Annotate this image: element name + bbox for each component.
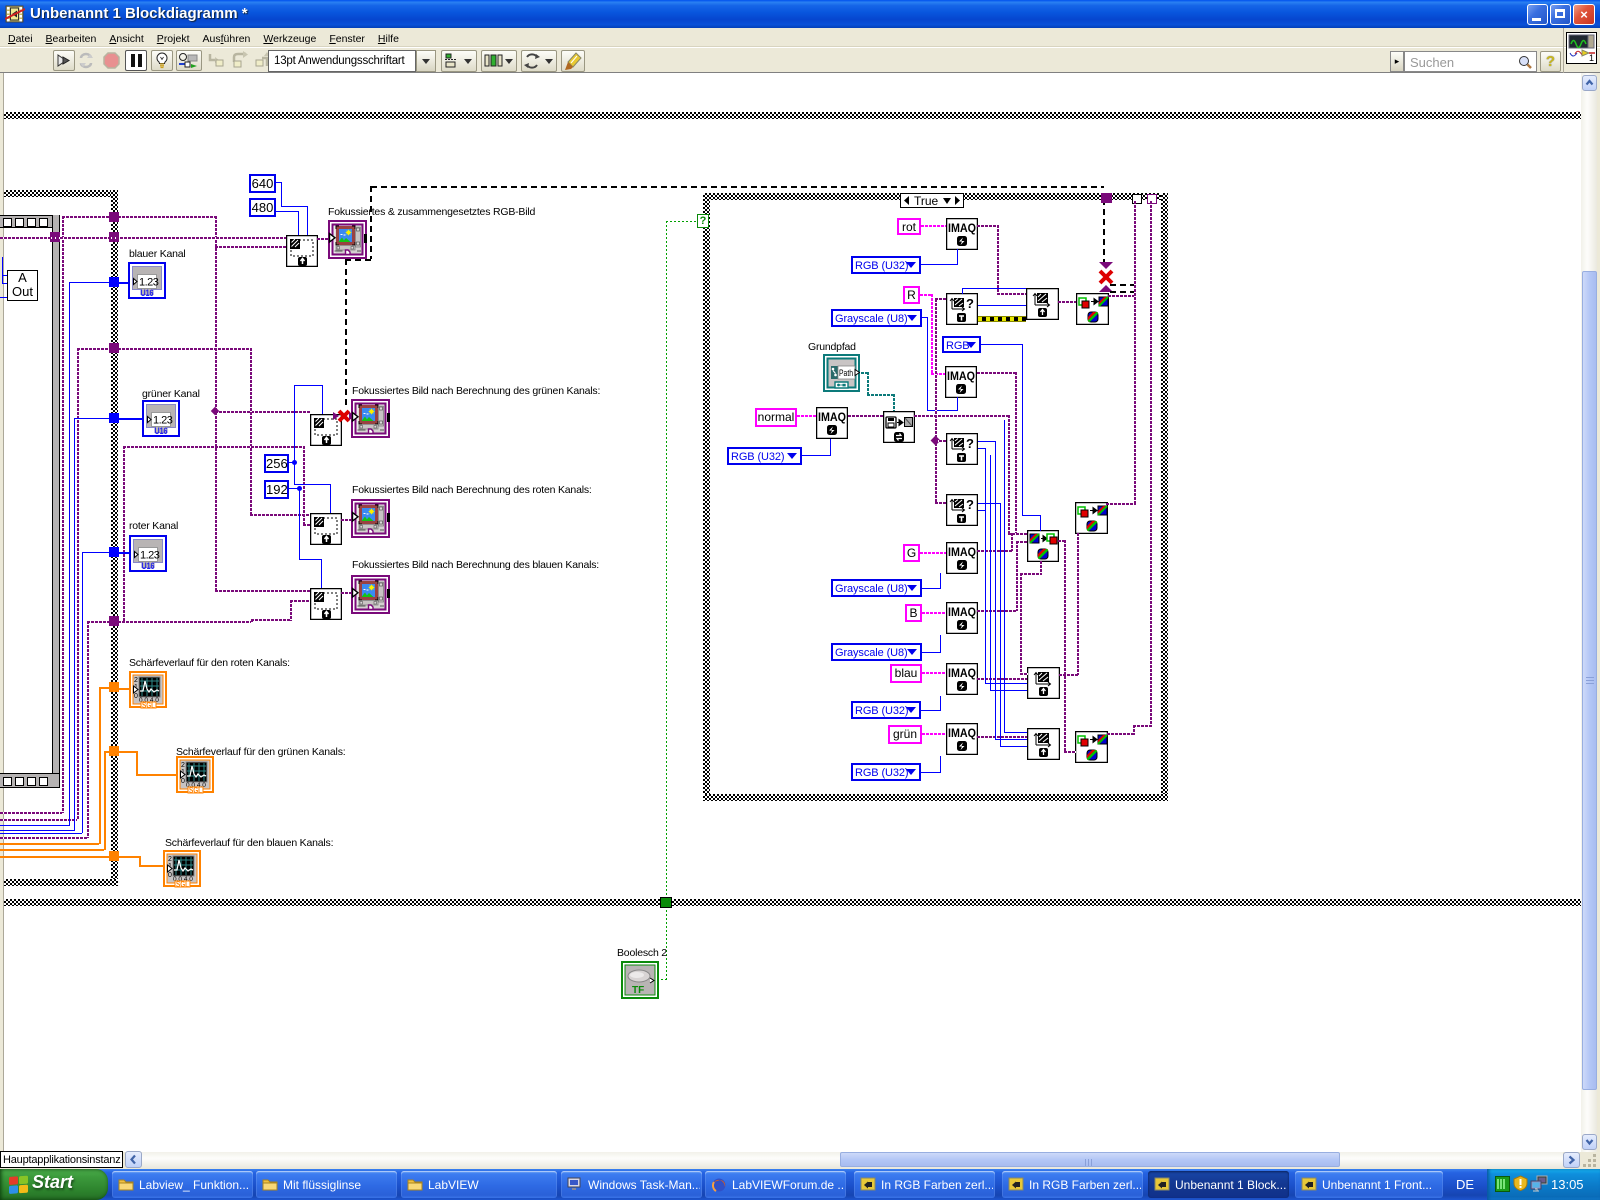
horizontal scrollbar thumb (840, 1152, 1340, 1167)
replace plane node 7 (1026, 288, 1059, 320)
wire purple IMAQ7 out to node32 (977, 736, 1027, 738)
image display icon 2 (351, 399, 390, 438)
resize grip (1583, 1154, 1597, 1167)
font selector (268, 50, 416, 72)
wire blue bundle verticals (985, 448, 986, 684)
image display icon 1 (328, 220, 367, 259)
svg-text:1: 1 (1589, 53, 1594, 63)
svg-text:True: True (914, 194, 939, 207)
tunnel purple y238 on film edge (50, 232, 60, 242)
toolbar (0, 47, 1600, 73)
wire blue enum1-IMAQ1 (921, 264, 958, 265)
wire purple lane 1 (62, 216, 64, 813)
wire purple node21 bottom out (1040, 561, 1042, 575)
system tray (1487, 1169, 1600, 1200)
DE language (1450, 1172, 1480, 1197)
wire purple y447 secondary (123, 446, 303, 448)
enum Grayscale (U8) 1 (831, 309, 922, 327)
cast node 3 (310, 513, 342, 545)
window buttons (1527, 4, 1548, 25)
tunnel orange y688 (109, 682, 119, 692)
while loop WL1 bottom border (4, 899, 1581, 906)
wire purple node28 out (1059, 674, 1079, 676)
wire purple y349 to x250 down to node3 (118, 348, 250, 350)
constant gruen (888, 725, 922, 744)
graph Schaerfeverlauf rot (129, 657, 290, 669)
inner loop WL2 bottom border (4, 879, 118, 886)
constant normal (755, 408, 797, 427)
extract? node 1 (946, 293, 978, 325)
wire teal path (861, 372, 869, 374)
wire blue lane 1 (69, 282, 70, 826)
taskbar (0, 1169, 1600, 1200)
wire node3 out (341, 519, 351, 521)
wire blue to roter Kanal (118, 552, 130, 554)
wire pink gruen-IMAQ7 (922, 733, 946, 735)
while loop WL1 top border (4, 112, 1581, 119)
replace plane node 28 (1027, 667, 1060, 699)
constant R (903, 286, 920, 304)
wire blue lane 2 (74, 418, 75, 831)
label image 4 (352, 559, 599, 571)
wire purple IMAQ6 out to node28 (977, 678, 1027, 680)
tunnel blue y553 (109, 547, 119, 557)
VI icon top-right (1566, 32, 1597, 64)
enum RGB (U32) 4 (851, 763, 921, 781)
inner loop WL2 right border (111, 190, 118, 886)
inner loop WL2 top border (4, 190, 118, 197)
wire purple lane 3 (87, 621, 89, 838)
enum RGB (U32) 2 (727, 447, 802, 465)
image display icon 3 (351, 499, 390, 538)
tunnel orange y856 (109, 851, 119, 861)
wire blue stubs into node28 (985, 683, 1027, 684)
enum RGB (U32) 1 (851, 256, 921, 274)
label Grundpfad (808, 341, 856, 353)
wire purple IMAQ3-save (848, 415, 883, 417)
horizontal scrollbar track (142, 1152, 1563, 1168)
tunnel purple y349 (109, 343, 119, 353)
wire blue extract1 outs to node7 (978, 305, 1026, 306)
wire orange lane 2 (104, 751, 106, 850)
start button (0, 1169, 108, 1200)
wire 192 (289, 488, 300, 489)
flat sequence film top border (0, 215, 59, 228)
indicator blauer Kanal (129, 248, 186, 260)
wire purple IMAQ4 out (977, 550, 1013, 552)
extract? node 2 (946, 433, 978, 465)
wire error yellow node (978, 316, 1026, 322)
search (1390, 51, 1404, 72)
wire purple save out main (914, 415, 1009, 417)
wire purple y412 branch to node2 (215, 411, 310, 413)
tunnel wired 2 (1147, 194, 1157, 204)
wire purple node33 out staircase (1107, 733, 1135, 735)
constant 256 (264, 454, 289, 473)
enum RGB (U32) 3 (851, 701, 921, 719)
wire purple long vertical x1151 (1150, 201, 1152, 726)
wire purple y217 to vertical x215 (118, 216, 217, 218)
wire node1 out (317, 238, 328, 240)
wire orange to graph3 (118, 856, 141, 858)
wire blue to blauer Kanal (118, 282, 130, 284)
wire purple node7 out to node8 (1058, 301, 1076, 303)
IMAQ node 1 (946, 218, 978, 250)
indicator roter Kanal (129, 520, 178, 532)
broken dashed wire top (371, 186, 1104, 188)
IMAQ node 5 (946, 602, 978, 634)
wire purple long y238 (0, 237, 286, 239)
wire node2 out broken (341, 417, 351, 419)
cast node 4 (310, 588, 342, 620)
title bar (0, 0, 1600, 28)
tunnel unwired 1 (1132, 194, 1142, 204)
wire orange lane 3 (0, 856, 111, 858)
wire blue RGBsmall-node21 (981, 344, 1023, 345)
wire purple IMAQ2 out (977, 372, 1017, 374)
tunnel orange y752 (109, 746, 119, 756)
enum Grayscale (U8) 3 (831, 643, 922, 661)
replace plane node 32 (1027, 728, 1060, 760)
flat sequence film right border (52, 215, 60, 788)
tunnel purple y217 (109, 212, 119, 222)
indicator gruener Kanal (142, 388, 200, 400)
tunnel purple on case top (1101, 193, 1112, 203)
wire purple node8 out to x1135 (1108, 295, 1135, 297)
wire 640 to node1 (276, 182, 282, 183)
horizontal scrollbar right arrow (1563, 1152, 1580, 1168)
menu bar (0, 28, 1600, 47)
constant rot (897, 218, 921, 235)
wire blue stubs into node32 (995, 739, 1027, 740)
wire pink blau-IMAQ6 (922, 672, 946, 674)
wire purple IMAQ5 out to node21 (977, 610, 1017, 612)
wire 480 to node1 (276, 211, 299, 212)
color convert node B (1075, 502, 1108, 534)
flat sequence film bottom border (0, 773, 59, 788)
label image 1 (328, 206, 535, 218)
label image 2 (352, 385, 600, 397)
wire blue lane 3 (82, 552, 83, 833)
wire orange lane 1 (99, 687, 101, 844)
constant 480 (249, 198, 276, 217)
wire purple long vertical x1135 (1134, 201, 1136, 504)
constant blau (890, 664, 922, 683)
boolean wire from Boolesch 2 (666, 221, 667, 897)
tunnel purple y621 (109, 616, 119, 626)
extract? node 3 (946, 494, 978, 526)
Hauptapplikationsinstanz box (0, 1151, 123, 1168)
vertical scrollbar (1581, 73, 1597, 1152)
wire purple y591 branch to node4 (215, 590, 310, 592)
wire node4 out (341, 592, 351, 594)
cast node 1 (286, 235, 318, 267)
constant 640 (249, 174, 276, 193)
wire purple y621 staircase to node4 (118, 621, 251, 623)
IMAQ node 4 (946, 542, 978, 574)
wire pink normal-IMAQ3 (797, 415, 816, 417)
wire blue grayscale3-IMAQ5 (922, 652, 941, 653)
wire blue extract2 outs (978, 441, 996, 442)
wire pink R-IMAQ2 (920, 294, 933, 296)
IMAQ node 3 (816, 407, 848, 439)
constant G (903, 544, 920, 562)
wire purple IMAQ1 out (977, 225, 999, 227)
tunnel blue y283 (109, 277, 119, 287)
enum RGB small (942, 336, 981, 353)
constant B (905, 604, 922, 622)
IMAQ node 6 (946, 663, 978, 695)
enum Grayscale (U8) 2 (831, 579, 922, 597)
graph Schaerfeverlauf gruen (176, 746, 345, 758)
array to color node 21 (1027, 530, 1059, 562)
wire blue enum2-IMAQ3 (802, 455, 831, 456)
wire blue stubs left of A Out (2, 257, 3, 284)
graph Schaerfeverlauf blau (165, 837, 333, 849)
wire blue grayscale2-IMAQ4 (922, 588, 941, 589)
taskbar buttons (112, 1171, 253, 1198)
path control Grundpfad (823, 354, 860, 392)
wire blue grayscale1-IMAQ2 (922, 317, 928, 318)
wire blue extract3 outs (978, 503, 1001, 504)
case selector ? terminal (697, 214, 709, 228)
wire 256 (289, 462, 295, 463)
red X broken wire at node2 (333, 408, 355, 424)
wire purple nodeB out (1106, 503, 1136, 505)
color convert node 33 (1075, 731, 1108, 763)
wire purple y247 stub to node1 (215, 246, 286, 248)
Boolesch 2 button (617, 947, 667, 959)
save image node (883, 411, 915, 443)
broken wire arrows and X at case top (1097, 262, 1115, 292)
wire purple junction to extract2/3 (935, 299, 937, 503)
label image 3 (352, 484, 592, 496)
wire pink rot-IMAQ1 (921, 225, 946, 227)
constant 192 (264, 480, 289, 499)
status row (0, 1152, 1600, 1169)
cast node 2 (310, 414, 342, 446)
IMAQ node 7 (946, 723, 978, 755)
wire orange to graph2 (118, 751, 138, 753)
wire blue to gruener Kanal (118, 418, 143, 420)
sub VI A Out (7, 270, 38, 301)
image display icon 4 (351, 575, 390, 614)
wire pink B-IMAQ5 (922, 612, 946, 614)
IMAQ node 2 (945, 366, 977, 398)
wire purple lane 2 (77, 348, 79, 820)
wire purple node21 out to node33 (1058, 540, 1066, 542)
wire blue enum3-IMAQ6 (920, 710, 941, 711)
tunnel purple y238 (109, 232, 119, 242)
wire blue enum4-IMAQ7 (920, 772, 941, 773)
color convert node 8 (1076, 293, 1109, 325)
case selector label True (900, 193, 964, 208)
wire pink G-IMAQ4 (920, 552, 946, 554)
tunnel blue y418 (109, 413, 119, 423)
tunnel green on WL1 bottom (660, 897, 672, 908)
case structure borders (703, 193, 1168, 200)
wire orange to graph1 (118, 688, 130, 690)
